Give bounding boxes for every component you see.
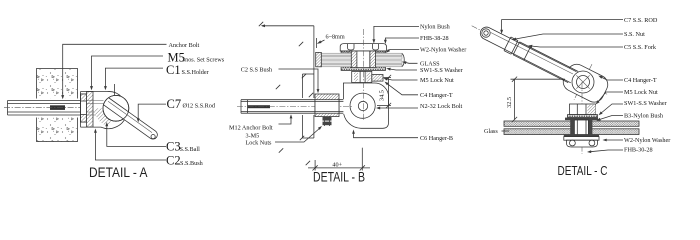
svg-text:C4 Hanger-T: C4 Hanger-T (624, 77, 657, 84)
svg-text:6~8mm: 6~8mm (326, 34, 345, 41)
svg-text:M12 Anchor Bolt: M12 Anchor Bolt (229, 124, 273, 131)
svg-text:S.S.Bush: S.S.Bush (180, 160, 204, 167)
svg-text:W2-Nylon Washer: W2-Nylon Washer (420, 47, 466, 54)
svg-text:34.5: 34.5 (379, 90, 386, 101)
svg-text:S.S. Nut: S.S. Nut (624, 31, 645, 38)
svg-text:S.S.Holder: S.S.Holder (182, 69, 209, 76)
svg-text:FHB-38-28: FHB-38-28 (420, 35, 449, 42)
svg-text:N2-32 Lock Bolt: N2-32 Lock Bolt (420, 103, 463, 110)
svg-text:B3-Nylon Bush: B3-Nylon Bush (624, 113, 664, 120)
svg-text:C6 Hanger-B: C6 Hanger-B (420, 135, 453, 142)
svg-text:C7: C7 (167, 97, 182, 111)
svg-text:C1: C1 (166, 63, 181, 77)
svg-text:S.S.Ball: S.S.Ball (180, 146, 201, 153)
svg-text:DETAIL - B: DETAIL - B (313, 170, 365, 185)
svg-text:C3: C3 (166, 140, 181, 154)
svg-text:Anchor Bolt: Anchor Bolt (169, 42, 200, 49)
svg-text:W2-Nylon Washer: W2-Nylon Washer (624, 137, 670, 144)
svg-text:M5 Lock Nut: M5 Lock Nut (624, 89, 658, 96)
svg-text:Nylon Bush: Nylon Bush (420, 24, 451, 31)
svg-text:M5 Lock Nut: M5 Lock Nut (420, 77, 454, 84)
svg-text:3nos. Set Screws: 3nos. Set Screws (182, 56, 225, 63)
svg-text:DETAIL - A: DETAIL - A (89, 164, 148, 180)
svg-text:Glass: Glass (484, 128, 498, 135)
svg-text:C5 S.S. Fork: C5 S.S. Fork (624, 44, 657, 51)
svg-text:Lock Nuts: Lock Nuts (246, 140, 273, 147)
svg-text:32.5: 32.5 (506, 97, 513, 108)
svg-text:C4 Hanger-T: C4 Hanger-T (420, 92, 453, 99)
svg-text:3-M5: 3-M5 (246, 132, 260, 139)
svg-text:C7 S.S. ROD: C7 S.S. ROD (624, 17, 658, 24)
svg-text:Ø12 S.S.Rod: Ø12 S.S.Rod (183, 103, 216, 110)
svg-text:40+: 40+ (332, 161, 342, 168)
svg-text:C2: C2 (166, 154, 181, 168)
svg-text:FHB-30-28: FHB-30-28 (624, 147, 653, 154)
svg-text:DETAIL - C: DETAIL - C (558, 164, 608, 178)
svg-text:C2 S.S Bush: C2 S.S Bush (241, 66, 273, 73)
svg-text:SW1-S.S Washer: SW1-S.S Washer (624, 100, 667, 107)
svg-text:SW1-S.S Washer: SW1-S.S Washer (420, 67, 463, 74)
